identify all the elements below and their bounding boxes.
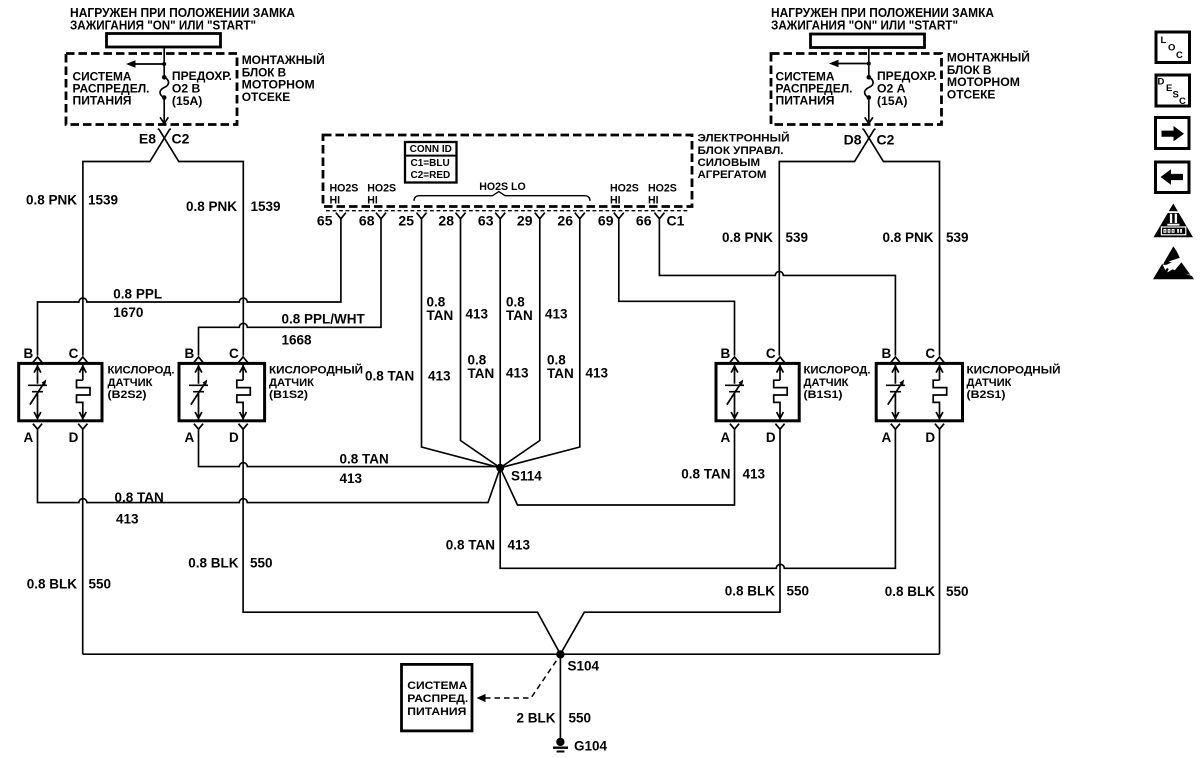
- svg-text:413: 413: [545, 307, 568, 322]
- splice S104: [556, 650, 564, 658]
- wire pin63 TAN to S114: [499, 219, 501, 468]
- svg-text:C1=BLU: C1=BLU: [411, 158, 450, 169]
- pin 68: [376, 213, 386, 219]
- svg-text:БЛОК УПРАВЛ.: БЛОК УПРАВЛ.: [698, 145, 784, 157]
- svg-text:550: 550: [569, 711, 592, 726]
- pin C terminal B1S1: [775, 357, 784, 363]
- fuse O2 A 15A: [867, 75, 872, 80]
- svg-text:РАСПРЕД.: РАСПРЕД.: [407, 693, 468, 705]
- pin 28: [456, 213, 466, 219]
- arrowhead down at box exit: [160, 117, 168, 123]
- svg-text:550: 550: [89, 577, 112, 592]
- wire B2S1.D BLK to S104 bus: [939, 429, 941, 654]
- svg-text:C: C: [766, 346, 776, 361]
- svg-text:ДАТЧИК: ДАТЧИК: [804, 377, 849, 389]
- oxygen sensor B1S2: [179, 363, 265, 420]
- svg-text:25: 25: [398, 213, 414, 229]
- svg-text:C: C: [925, 346, 935, 361]
- pin 26: [575, 213, 585, 219]
- svg-text:D: D: [1158, 77, 1165, 88]
- splice S114: [496, 464, 504, 472]
- svg-text:0.8 TAN: 0.8 TAN: [446, 538, 495, 553]
- pin C terminal B1S2: [239, 357, 248, 363]
- svg-text:29: 29: [517, 213, 533, 229]
- pin B terminal B2S2: [33, 357, 42, 363]
- pin D terminal B1S1: [775, 424, 784, 430]
- pin D terminal B1S2: [239, 424, 248, 430]
- svg-text:550: 550: [250, 556, 273, 571]
- ground G104: [556, 738, 564, 746]
- svg-text:68: 68: [359, 213, 375, 229]
- svg-text:C2: C2: [172, 131, 190, 147]
- svg-text:1670: 1670: [113, 305, 143, 320]
- svg-text:C: C: [1179, 96, 1186, 107]
- wire pin65 PPL to B2S2.B: [38, 219, 341, 356]
- svg-text:C1: C1: [667, 213, 685, 229]
- icon back arrow box: [1156, 162, 1190, 193]
- svg-text:B: B: [24, 346, 34, 361]
- wire pin25 TAN to S114: [422, 219, 501, 468]
- svg-text:A: A: [721, 430, 731, 445]
- svg-text:539: 539: [946, 230, 969, 245]
- svg-text:ЗАЖИГАНИЯ "ON" ИЛИ "START": ЗАЖИГАНИЯ "ON" ИЛИ "START": [70, 19, 256, 33]
- svg-text:АГРЕГАТОМ: АГРЕГАТОМ: [698, 169, 767, 181]
- arrowhead down at box exit right: [865, 117, 873, 123]
- pin D terminal B2S2: [78, 424, 87, 430]
- pin C terminal B2S1: [935, 357, 944, 363]
- svg-text:G104: G104: [574, 739, 608, 754]
- pin 29: [535, 213, 545, 219]
- svg-text:(B1S2): (B1S2): [269, 389, 308, 401]
- PCM connector line C1: [326, 210, 689, 212]
- brace HO2S LO pins 25-26: [414, 192, 590, 201]
- svg-text:0.8 PNK: 0.8 PNK: [722, 230, 773, 245]
- junction dot at feed arrow: [162, 62, 166, 66]
- fuse block box left (МОНТАЖНЫЙ БЛОК): [66, 54, 237, 125]
- pin 65: [336, 213, 346, 219]
- svg-text:S104: S104: [568, 659, 600, 674]
- wire B2S1.A TAN to S114: [500, 429, 895, 568]
- svg-text:ПИТАНИЯ: ПИТАНИЯ: [407, 706, 466, 718]
- svg-text:1539: 1539: [251, 199, 281, 214]
- heater element B2S2: [77, 365, 91, 420]
- svg-text:(B2S2): (B2S2): [108, 389, 147, 401]
- oxygen sensor B1S1: [716, 363, 799, 420]
- pin 25: [417, 213, 427, 219]
- pin A terminal B2S2: [33, 424, 42, 430]
- arrowhead into power distribution box: [477, 694, 486, 702]
- svg-text:0.8 BLK: 0.8 BLK: [725, 584, 776, 599]
- svg-text:СИСТЕМА: СИСТЕМА: [407, 680, 467, 692]
- svg-text:ДАТЧИК: ДАТЧИК: [269, 377, 314, 389]
- svg-text:26: 26: [557, 213, 573, 229]
- svg-text:S: S: [1173, 90, 1179, 101]
- icon ESD caution triangle: [1164, 246, 1180, 263]
- wire from bus bar into fuse right: [868, 48, 870, 78]
- svg-text:B: B: [881, 346, 891, 361]
- svg-text:1668: 1668: [282, 333, 313, 348]
- wire pin29 TAN to S114: [500, 219, 540, 468]
- svg-text:HI: HI: [367, 194, 378, 206]
- sensor cell element B2S1: [886, 365, 905, 420]
- wire from fuse to connector E8: [163, 98, 165, 123]
- junction dot at feed arrow right: [867, 62, 871, 66]
- svg-text:0.8 BLK: 0.8 BLK: [27, 577, 78, 592]
- svg-text:КИСЛОРОД.: КИСЛОРОД.: [108, 365, 175, 377]
- svg-text:HO2S: HO2S: [610, 183, 639, 195]
- svg-text:0.8 TAN: 0.8 TAN: [340, 452, 389, 467]
- svg-text:(B1S1): (B1S1): [804, 389, 843, 401]
- svg-text:(B2S1): (B2S1): [967, 389, 1006, 401]
- svg-text:HO2S LO: HO2S LO: [479, 181, 526, 193]
- svg-text:413: 413: [428, 369, 451, 384]
- svg-text:TAN: TAN: [468, 366, 495, 381]
- oxygen sensor B2S2: [19, 363, 102, 420]
- svg-text:63: 63: [478, 213, 494, 229]
- svg-text:E8: E8: [139, 131, 156, 147]
- svg-text:D: D: [925, 430, 935, 445]
- ground bus wire into S104: [83, 653, 940, 655]
- feed arrow to power distribution right: [833, 63, 869, 65]
- connector X symbol and wire fork to B1S1.C: [779, 129, 875, 356]
- pin C terminal B2S2: [78, 357, 87, 363]
- wire pin68 PPL/WHT to B1S2.B: [199, 219, 382, 356]
- bus bar right: [811, 34, 925, 48]
- svg-text:КИСЛОРОД.: КИСЛОРОД.: [804, 365, 871, 377]
- wire B1S1.D BLK to S104: [560, 429, 780, 654]
- icon forward arrow box: [1156, 118, 1190, 149]
- CONN ID box: [405, 142, 457, 183]
- svg-text:413: 413: [586, 366, 609, 381]
- wire S104 to G104 2 BLK 550: [559, 654, 561, 738]
- svg-text:0.8 PNK: 0.8 PNK: [186, 199, 237, 214]
- svg-text:HI: HI: [330, 194, 341, 206]
- wire pin66 to B2S1.B: [659, 219, 895, 356]
- svg-text:0.8 PPL/WHT: 0.8 PPL/WHT: [282, 312, 366, 327]
- heater element B1S1: [774, 365, 788, 420]
- svg-text:D8: D8: [844, 132, 862, 148]
- svg-text:ЗАЖИГАНИЯ "ON" ИЛИ "START": ЗАЖИГАНИЯ "ON" ИЛИ "START": [771, 19, 958, 33]
- fuse O2 B 15A: [162, 75, 167, 80]
- svg-text:413: 413: [743, 467, 766, 482]
- svg-text:0.8 TAN: 0.8 TAN: [115, 490, 164, 505]
- pin 63: [495, 213, 505, 219]
- svg-text:O: O: [1168, 43, 1175, 54]
- svg-text:(15А): (15А): [172, 94, 202, 108]
- icon OBD II triangle: [1154, 204, 1194, 238]
- svg-text:0.8 BLK: 0.8 BLK: [885, 584, 936, 599]
- sensor cell element B1S1: [725, 365, 744, 420]
- svg-text:0.8 PNK: 0.8 PNK: [26, 193, 77, 208]
- fuse block box right (МОНТАЖНЫЙ БЛОК): [771, 54, 942, 125]
- svg-text:D: D: [69, 430, 79, 445]
- wire pin28 TAN to S114: [461, 219, 501, 468]
- svg-text:413: 413: [466, 307, 489, 322]
- svg-text:0.8 PNK: 0.8 PNK: [882, 230, 933, 245]
- svg-text:A: A: [24, 430, 34, 445]
- svg-text:CONN ID: CONN ID: [410, 144, 452, 155]
- wire from fuse to connector D8: [868, 98, 870, 123]
- svg-text:550: 550: [946, 584, 969, 599]
- wire fork to B1S2.C: [158, 129, 244, 356]
- svg-text:C: C: [69, 346, 79, 361]
- dashed wire power distribution to S104: [485, 659, 558, 698]
- wire B1S2.A TAN to S114: [199, 429, 501, 466]
- sensor cell element B1S2: [189, 365, 208, 420]
- pin A terminal B1S2: [194, 424, 203, 430]
- svg-text:D: D: [766, 430, 776, 445]
- connector X symbol and wire fork to B2S2.C: [83, 129, 171, 356]
- svg-text:HI: HI: [610, 194, 621, 206]
- icon LOC box: [1156, 32, 1190, 63]
- svg-text:B: B: [721, 346, 731, 361]
- svg-text:ПИТАНИЯ: ПИТАНИЯ: [73, 93, 132, 107]
- svg-text:C: C: [229, 346, 239, 361]
- svg-text:TAN: TAN: [427, 308, 454, 323]
- svg-text:S114: S114: [511, 469, 542, 484]
- sensor cell element B2S2: [28, 365, 47, 420]
- svg-text:ДАТЧИК: ДАТЧИК: [967, 377, 1012, 389]
- svg-text:ДАТЧИК: ДАТЧИК: [108, 377, 153, 389]
- svg-text:HO2S: HO2S: [367, 183, 396, 195]
- wire B1S1.A TAN to S114: [500, 429, 734, 505]
- pin 69: [614, 213, 624, 219]
- wire fork to B2S1.C: [862, 129, 939, 356]
- svg-text:D: D: [229, 430, 239, 445]
- svg-text:L: L: [1161, 35, 1167, 46]
- svg-text:539: 539: [786, 230, 809, 245]
- svg-text:C2: C2: [877, 132, 895, 148]
- svg-text:ПИТАНИЯ: ПИТАНИЯ: [776, 93, 835, 107]
- svg-text:0.8 TAN: 0.8 TAN: [365, 369, 414, 384]
- svg-text:0.8 PPL: 0.8 PPL: [113, 286, 162, 301]
- svg-text:413: 413: [116, 512, 139, 527]
- wire pin26 TAN to S114: [500, 219, 580, 468]
- pin B terminal B1S2: [194, 357, 203, 363]
- power distribution box bottom: [402, 664, 473, 731]
- svg-text:0.8 BLK: 0.8 BLK: [188, 556, 239, 571]
- oxygen sensor B2S1: [876, 363, 962, 420]
- pin B terminal B1S1: [730, 357, 739, 363]
- svg-text:550: 550: [787, 584, 810, 599]
- svg-text:HI: HI: [648, 194, 659, 206]
- svg-text:HO2S: HO2S: [330, 183, 359, 195]
- svg-text:69: 69: [598, 213, 614, 229]
- svg-text:B: B: [185, 346, 195, 361]
- svg-text:C: C: [1176, 50, 1183, 61]
- pin A terminal B2S1: [891, 424, 900, 430]
- PCM box (ЭЛЕКТРОННЫЙ БЛОК): [323, 135, 692, 207]
- svg-text:65: 65: [317, 213, 333, 229]
- svg-text:(15А): (15А): [877, 94, 907, 108]
- svg-text:HO2S: HO2S: [648, 183, 677, 195]
- pin A terminal B1S1: [730, 424, 739, 430]
- svg-text:0.8 TAN: 0.8 TAN: [681, 467, 730, 482]
- svg-text:A: A: [185, 430, 195, 445]
- pin D terminal B2S1: [935, 424, 944, 430]
- bus bar left: [107, 34, 221, 48]
- svg-text:E: E: [1166, 83, 1172, 94]
- svg-text:КИСЛОРОДНЫЙ: КИСЛОРОДНЫЙ: [269, 364, 363, 377]
- wire B2S2.D BLK to S104 bus: [82, 429, 84, 654]
- svg-text:2 BLK: 2 BLK: [516, 711, 555, 726]
- svg-text:КИСЛОРОДНЫЙ: КИСЛОРОДНЫЙ: [967, 364, 1061, 377]
- wire pin69 PNK... to B1S1.B: [619, 219, 735, 356]
- svg-text:A: A: [881, 430, 891, 445]
- svg-text:ОТСЕКЕ: ОТСЕКЕ: [947, 88, 996, 102]
- svg-text:C2=RED: C2=RED: [411, 170, 451, 181]
- svg-text:413: 413: [340, 471, 363, 486]
- wire B2S2.A TAN to S114: [38, 429, 501, 502]
- svg-text:413: 413: [506, 366, 529, 381]
- pin B terminal B2S1: [891, 357, 900, 363]
- svg-text:66: 66: [636, 213, 652, 229]
- wire B1S2.D BLK to S104: [243, 429, 560, 654]
- pin 66: [654, 213, 664, 219]
- svg-text:28: 28: [438, 213, 454, 229]
- svg-text:1539: 1539: [88, 193, 118, 208]
- svg-text:TAN: TAN: [547, 366, 574, 381]
- svg-text:413: 413: [508, 538, 531, 553]
- svg-text:ОТСЕКЕ: ОТСЕКЕ: [242, 90, 291, 104]
- heater element B2S1: [933, 365, 947, 420]
- heater element B1S2: [237, 365, 251, 420]
- wire from bus bar into fuse: [163, 47, 165, 77]
- svg-text:TAN: TAN: [506, 308, 533, 323]
- svg-text:ЭЛЕКТРОННЫЙ: ЭЛЕКТРОННЫЙ: [698, 132, 790, 145]
- svg-text:СИЛОВЫМ: СИЛОВЫМ: [698, 157, 761, 169]
- icon DESC box: [1156, 75, 1190, 106]
- feed arrow to power distribution left: [130, 63, 164, 65]
